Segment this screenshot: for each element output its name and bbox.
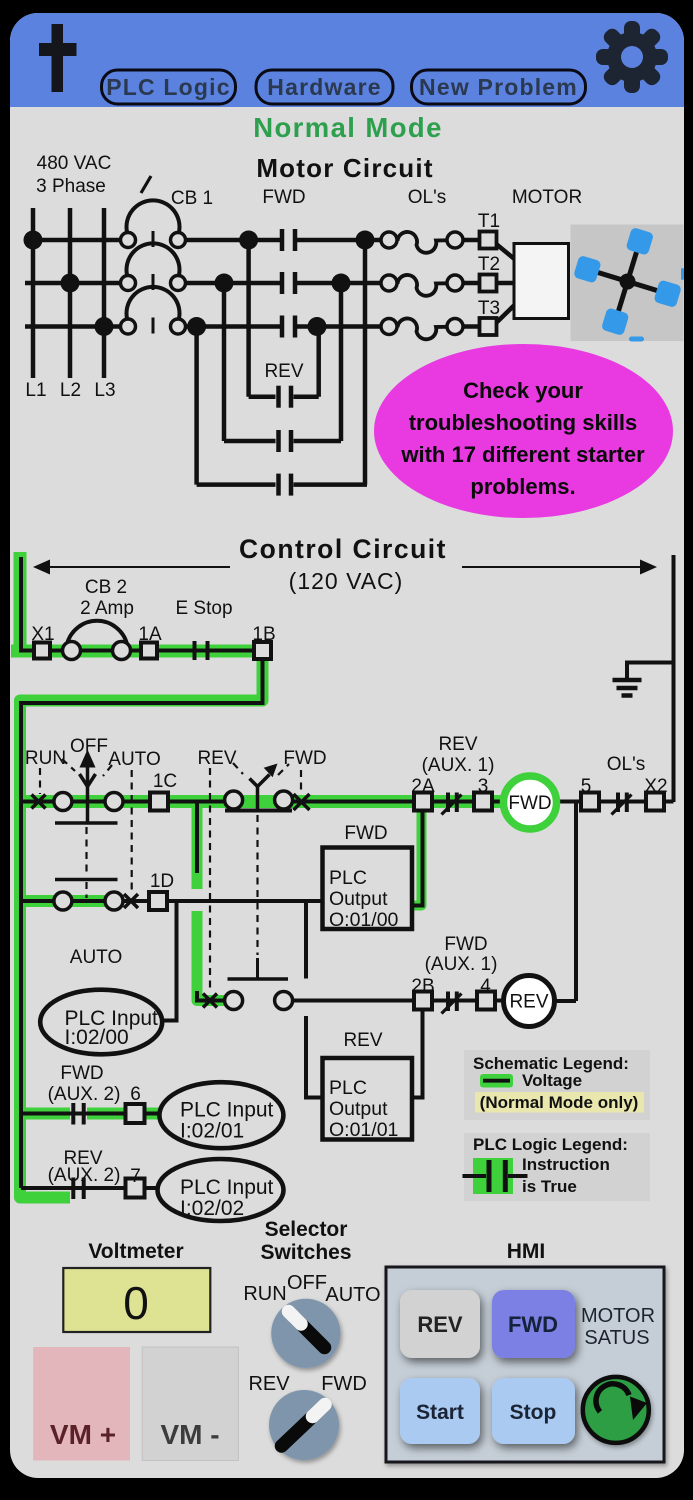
svg-text:FWD: FWD <box>508 793 551 814</box>
svg-text:PLC: PLC <box>329 867 367 889</box>
svg-text:X1: X1 <box>31 624 54 645</box>
svg-text:Start: Start <box>416 1401 464 1424</box>
svg-text:3: 3 <box>478 776 489 797</box>
svg-text:AUTO: AUTO <box>70 947 122 968</box>
svg-text:FWD: FWD <box>344 823 387 844</box>
svg-text:is True: is True <box>522 1177 577 1196</box>
svg-text:1C: 1C <box>153 771 177 792</box>
svg-text:PLC Logic Legend:: PLC Logic Legend: <box>473 1135 628 1154</box>
svg-text:2A: 2A <box>411 776 435 797</box>
svg-text:REV: REV <box>417 1312 463 1337</box>
svg-text:I:02/02: I:02/02 <box>180 1197 244 1220</box>
svg-text:E Stop: E Stop <box>175 598 232 619</box>
svg-text:REV: REV <box>509 992 548 1013</box>
svg-text:Hardware: Hardware <box>267 74 381 100</box>
svg-text:(AUX. 1): (AUX. 1) <box>425 954 498 975</box>
svg-text:Normal Mode: Normal Mode <box>253 112 443 143</box>
svg-text:troubleshooting skills: troubleshooting skills <box>409 410 638 435</box>
svg-text:7: 7 <box>130 1166 141 1187</box>
svg-text:SATUS: SATUS <box>584 1327 649 1349</box>
svg-text:Stop: Stop <box>510 1401 557 1424</box>
svg-text:X2: X2 <box>644 776 667 797</box>
svg-text:OFF: OFF <box>287 1272 327 1294</box>
svg-text:AUTO: AUTO <box>108 749 160 770</box>
svg-text:L3: L3 <box>94 380 115 401</box>
svg-text:PLC: PLC <box>329 1077 367 1099</box>
svg-text:REV: REV <box>264 361 303 382</box>
svg-text:Check your: Check your <box>463 378 583 403</box>
svg-text:FWD: FWD <box>321 1373 367 1395</box>
svg-text:VM -: VM - <box>160 1419 219 1450</box>
svg-text:I:02/00: I:02/00 <box>65 1026 129 1049</box>
svg-text:T1: T1 <box>478 211 500 232</box>
svg-text:FWD: FWD <box>60 1063 103 1084</box>
svg-text:Output: Output <box>329 1098 388 1120</box>
svg-text:6: 6 <box>130 1084 141 1105</box>
svg-text:PLC Logic: PLC Logic <box>106 74 231 100</box>
svg-text:1D: 1D <box>150 871 174 892</box>
svg-text:Instruction: Instruction <box>522 1155 610 1174</box>
svg-text:O:01/00: O:01/00 <box>329 909 399 931</box>
svg-text:CB 2: CB 2 <box>85 577 127 598</box>
svg-text:REV: REV <box>438 734 477 755</box>
svg-text:RUN: RUN <box>25 748 66 769</box>
svg-text:New Problem: New Problem <box>419 74 578 100</box>
svg-text:PLC Input: PLC Input <box>180 1099 274 1122</box>
svg-text:Switches: Switches <box>260 1241 351 1264</box>
svg-text:problems.: problems. <box>470 474 575 499</box>
svg-text:with 17 different starter: with 17 different starter <box>400 442 645 467</box>
svg-text:L1: L1 <box>25 380 46 401</box>
svg-text:(Normal Mode only): (Normal Mode only) <box>480 1093 639 1112</box>
svg-text:Control Circuit: Control Circuit <box>239 534 447 564</box>
svg-text:3 Phase: 3 Phase <box>36 176 106 197</box>
svg-text:Selector: Selector <box>265 1218 348 1241</box>
svg-text:CB 1: CB 1 <box>171 188 213 209</box>
svg-text:Output: Output <box>329 888 388 910</box>
svg-text:Voltmeter: Voltmeter <box>88 1240 183 1263</box>
svg-text:RUN: RUN <box>243 1283 286 1305</box>
svg-text:OL's: OL's <box>408 187 446 208</box>
svg-text:REV: REV <box>197 748 236 769</box>
svg-text:O:01/01: O:01/01 <box>329 1119 398 1141</box>
svg-text:HMI: HMI <box>507 1240 546 1263</box>
svg-text:FWD: FWD <box>283 748 326 769</box>
svg-text:480 VAC: 480 VAC <box>37 153 112 174</box>
svg-text:OFF: OFF <box>70 736 108 757</box>
svg-text:VM +: VM + <box>50 1419 116 1450</box>
svg-text:FWD: FWD <box>444 934 487 955</box>
svg-text:Voltage: Voltage <box>522 1071 582 1090</box>
svg-text:2B: 2B <box>411 976 434 997</box>
svg-text:2 Amp: 2 Amp <box>80 598 134 619</box>
svg-text:I:02/01: I:02/01 <box>180 1120 244 1143</box>
svg-text:REV: REV <box>248 1373 290 1395</box>
svg-text:L2: L2 <box>60 380 81 401</box>
svg-text:(AUX. 1): (AUX. 1) <box>422 755 495 776</box>
svg-text:REV: REV <box>343 1030 382 1051</box>
svg-text:FWD: FWD <box>508 1312 558 1337</box>
svg-text:(AUX. 2): (AUX. 2) <box>48 1165 121 1186</box>
svg-text:(AUX. 2): (AUX. 2) <box>48 1084 121 1105</box>
svg-text:OL's: OL's <box>607 754 645 775</box>
svg-text:Motor Circuit: Motor Circuit <box>256 153 433 183</box>
svg-text:MOTOR: MOTOR <box>512 187 582 208</box>
svg-text:FWD: FWD <box>262 187 305 208</box>
svg-text:0: 0 <box>123 1277 149 1329</box>
svg-text:(120 VAC): (120 VAC) <box>289 568 404 594</box>
svg-text:1A: 1A <box>138 624 162 645</box>
svg-text:5: 5 <box>581 776 592 797</box>
svg-text:1B: 1B <box>252 624 275 645</box>
svg-text:MOTOR: MOTOR <box>581 1305 655 1327</box>
svg-text:AUTO: AUTO <box>325 1284 380 1306</box>
svg-text:T2: T2 <box>478 254 500 275</box>
svg-text:4: 4 <box>480 976 491 997</box>
svg-text:T3: T3 <box>478 298 500 319</box>
svg-text:PLC Input: PLC Input <box>180 1176 274 1199</box>
